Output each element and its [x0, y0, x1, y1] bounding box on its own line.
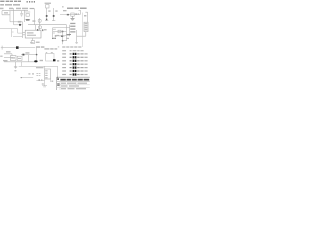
connector J3 bottom	[44, 66, 46, 69]
header letters F M D L	[27, 1, 35, 3]
diode D2	[16, 46, 19, 49]
wire	[21, 77, 33, 79]
table rows with swatches	[62, 53, 87, 76]
label	[36, 46, 40, 48]
connector J1 top-left box	[2, 11, 28, 15]
left wires	[0, 29, 23, 37]
crystal Y1	[71, 13, 74, 16]
diode D1	[14, 24, 23, 26]
crystal X1	[32, 38, 34, 41]
wire top right	[60, 14, 80, 16]
swatch column	[73, 53, 77, 76]
wire stub	[78, 10, 80, 14]
wire right column	[82, 13, 84, 48]
wire	[9, 11, 11, 22]
title text line 2	[0, 4, 20, 6]
title text bold	[57, 78, 89, 80]
wire	[13, 8, 15, 25]
bus wire	[28, 24, 67, 26]
regulator U2	[10, 56, 16, 61]
transistor Q1	[39, 18, 41, 30]
polarized cap	[34, 60, 37, 62]
wire	[77, 32, 86, 37]
table row 1	[62, 50, 83, 51]
wire	[36, 80, 44, 82]
capacitor C9	[36, 48, 38, 61]
bus wire 2	[53, 27, 70, 29]
title text line 1	[0, 1, 21, 2]
jumper marks	[36, 74, 40, 76]
dash	[14, 70, 16, 71]
pin top	[35, 25, 37, 31]
ground	[14, 62, 17, 69]
connector P2 small box	[45, 3, 51, 4]
wire	[69, 25, 71, 36]
wire	[4, 55, 35, 62]
ground	[70, 16, 74, 20]
label	[36, 67, 43, 68]
info rows	[61, 83, 87, 90]
capacitor C1	[26, 19, 30, 21]
label +5V	[63, 10, 67, 11]
capacitor C6	[84, 15, 86, 17]
table header	[62, 46, 81, 47]
long bottom wire	[19, 66, 58, 77]
wire right	[85, 12, 87, 22]
wire	[22, 22, 24, 38]
LED branch 2	[53, 8, 55, 21]
wire	[57, 35, 70, 37]
buzzer LS1	[46, 53, 54, 61]
connector J2 right	[84, 22, 88, 31]
wire	[76, 30, 78, 35]
wire	[62, 32, 64, 41]
power input wire	[1, 46, 16, 50]
wire	[21, 62, 23, 67]
transistor Q2	[38, 26, 41, 29]
inductor box	[58, 30, 61, 33]
pin stubs	[23, 32, 26, 35]
capacitor C7	[61, 35, 63, 37]
regulator section	[6, 51, 11, 52]
title block	[57, 77, 90, 90]
wire dark	[67, 34, 72, 36]
filter group	[25, 9, 35, 25]
pin right	[42, 29, 43, 31]
title text line 3	[0, 8, 34, 10]
IC U1	[25, 30, 41, 38]
logo	[57, 83, 59, 86]
buzzer label	[44, 48, 49, 49]
wire	[21, 54, 37, 56]
capacitor C5	[75, 13, 77, 15]
resistor R1	[10, 21, 23, 23]
wire	[66, 25, 68, 41]
ground below J3	[42, 79, 47, 87]
LED branch 1	[46, 8, 48, 21]
pin labels net names	[70, 23, 75, 33]
dashes	[28, 73, 30, 74]
capacitor C2	[20, 11, 23, 17]
note text top right	[62, 6, 87, 9]
label	[4, 12, 8, 13]
ferrite bead	[67, 14, 69, 16]
diode D3	[22, 54, 24, 56]
wire	[53, 28, 56, 38]
resistor R9	[76, 35, 78, 43]
